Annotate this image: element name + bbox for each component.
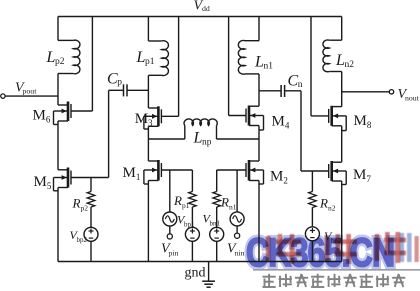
- svg-text:p1: p1: [182, 201, 190, 210]
- svg-text:p: p: [117, 78, 122, 88]
- transistor M4: [229, 106, 264, 131]
- svg-text:M: M: [354, 113, 367, 129]
- svg-text:M: M: [34, 174, 47, 190]
- source Vbn2: [305, 227, 319, 241]
- svg-text:L: L: [193, 130, 203, 147]
- wire M3 gate to Vdd: [178, 17, 180, 117]
- svg-text:p2: p2: [55, 57, 65, 67]
- resistor Rn2: [309, 171, 317, 227]
- svg-text:M: M: [353, 167, 366, 183]
- svg-text:bn1: bn1: [210, 220, 221, 228]
- wire Vbp2 to ground rail: [90, 241, 92, 261]
- wire M1 source to ground rail: [147, 181, 149, 262]
- svg-text:pout: pout: [23, 87, 38, 96]
- svg-text:7: 7: [366, 174, 371, 184]
- terminal Vpout: [5, 95, 58, 97]
- svg-text:R: R: [319, 196, 328, 211]
- inductor Ln2: [323, 40, 342, 72]
- capacitor Cn: [259, 85, 301, 97]
- capacitor Cp: [109, 84, 149, 96]
- svg-text:M: M: [270, 169, 283, 185]
- wire Ln1 to M4 drain / Cn node: [258, 74, 260, 106]
- svg-text:M: M: [272, 114, 285, 130]
- wire Vbn2 to ground rail: [311, 241, 313, 262]
- resistor Rp1: [189, 170, 197, 227]
- transistor M1: [144, 160, 193, 184]
- wire M6 gate to Vdd: [91, 17, 93, 112]
- transistor M8: [311, 106, 346, 131]
- terminal Vnin: [235, 233, 240, 238]
- svg-text:L: L: [46, 49, 56, 66]
- svg-text:bn2: bn2: [331, 237, 342, 245]
- wire Vdd to Lp2: [57, 17, 59, 41]
- inductor Ln1: [238, 40, 259, 74]
- wire Lp2 to M6 drain / Vpout node: [57, 74, 59, 106]
- svg-text:nin: nin: [235, 249, 245, 258]
- svg-text:4: 4: [285, 121, 290, 131]
- terminal Vnout: [342, 91, 390, 93]
- svg-text:6: 6: [46, 115, 51, 125]
- svg-text:R: R: [173, 193, 182, 208]
- svg-text:L: L: [136, 49, 146, 66]
- svg-text:1: 1: [136, 172, 141, 182]
- svg-text:bp2: bp2: [77, 236, 88, 244]
- inductor Lp1: [148, 41, 168, 76]
- wire M5 source to ground rail: [57, 188, 59, 262]
- transistor M6: [54, 102, 93, 125]
- wire M4 gate to Vdd: [228, 17, 230, 116]
- wire Vdd to Lp1: [147, 17, 149, 42]
- inductor Lp2: [58, 40, 80, 74]
- svg-text:M: M: [33, 108, 46, 124]
- svg-text:M: M: [135, 111, 148, 127]
- transistor M5: [54, 168, 109, 191]
- svg-text:M: M: [123, 165, 136, 181]
- wire M2 source to ground rail: [258, 181, 260, 262]
- resistor Rp2: [87, 178, 95, 228]
- wire Cn to M7 gate: [300, 91, 302, 171]
- svg-text:p1: p1: [145, 57, 155, 67]
- wire M8 source to M7 drain: [341, 126, 343, 162]
- svg-text:gnd: gnd: [185, 266, 206, 281]
- svg-text:dd: dd: [202, 4, 210, 13]
- wire Lp1 to M3 drain / Cp node: [147, 75, 149, 108]
- svg-text:L: L: [335, 52, 345, 69]
- wire M3 source to M1 drain / node A: [147, 126, 149, 161]
- source Vbn1: [210, 227, 224, 241]
- svg-text:CK365.CN: CK365.CN: [246, 230, 394, 275]
- svg-text:n2: n2: [345, 60, 355, 70]
- wire M6 source to M5 drain: [57, 121, 59, 170]
- svg-text:n1: n1: [229, 203, 237, 212]
- wire Vdd to Ln1: [258, 17, 260, 41]
- wire Vbp1 to ground rail: [191, 241, 193, 261]
- terminal Vpin: [167, 234, 172, 239]
- svg-text:n: n: [298, 80, 303, 90]
- svg-text:8: 8: [367, 120, 372, 130]
- svg-text:nout: nout: [405, 94, 420, 103]
- svg-text:R: R: [220, 195, 229, 210]
- transistor M7: [301, 161, 346, 185]
- svg-text:pin: pin: [169, 249, 179, 258]
- source Vnin AC: [230, 212, 244, 226]
- transistor M2: [217, 160, 264, 184]
- wire ground rail: [58, 261, 342, 263]
- transistor M3: [144, 106, 179, 129]
- wire Vbn1 to ground rail: [216, 241, 218, 261]
- wire M4 source to M2 drain / node B: [258, 126, 260, 162]
- source Vpin AC: [163, 212, 177, 226]
- svg-text:L: L: [254, 54, 264, 71]
- svg-text:2: 2: [283, 176, 288, 186]
- inductor Lnp: [148, 119, 259, 139]
- resistor Rn1: [213, 170, 221, 227]
- svg-text:n1: n1: [264, 62, 274, 72]
- wire Cp to M5 gate: [108, 90, 110, 177]
- wire M2 gate to Vnin source: [236, 170, 238, 212]
- wire M1 gate to Vpin source: [169, 170, 171, 212]
- svg-text:p2: p2: [81, 204, 89, 213]
- svg-text:np: np: [202, 138, 212, 148]
- wire M7 source to ground rail: [341, 181, 343, 262]
- source Vbp1: [185, 227, 199, 241]
- wire Ln2 to M8 drain / Vnout node: [341, 72, 343, 107]
- svg-text:n2: n2: [328, 204, 336, 213]
- svg-text:R: R: [72, 196, 81, 211]
- wire M8 gate to Vdd: [310, 17, 312, 116]
- svg-text:bp1: bp1: [184, 221, 195, 229]
- ground: [202, 262, 215, 288]
- watermark CK365.CN logo: [246, 230, 420, 287]
- svg-text:5: 5: [47, 181, 52, 191]
- source Vbp2: [84, 227, 98, 241]
- wire Vdd to Ln2: [341, 17, 343, 41]
- wire Vdd rail: [58, 16, 342, 18]
